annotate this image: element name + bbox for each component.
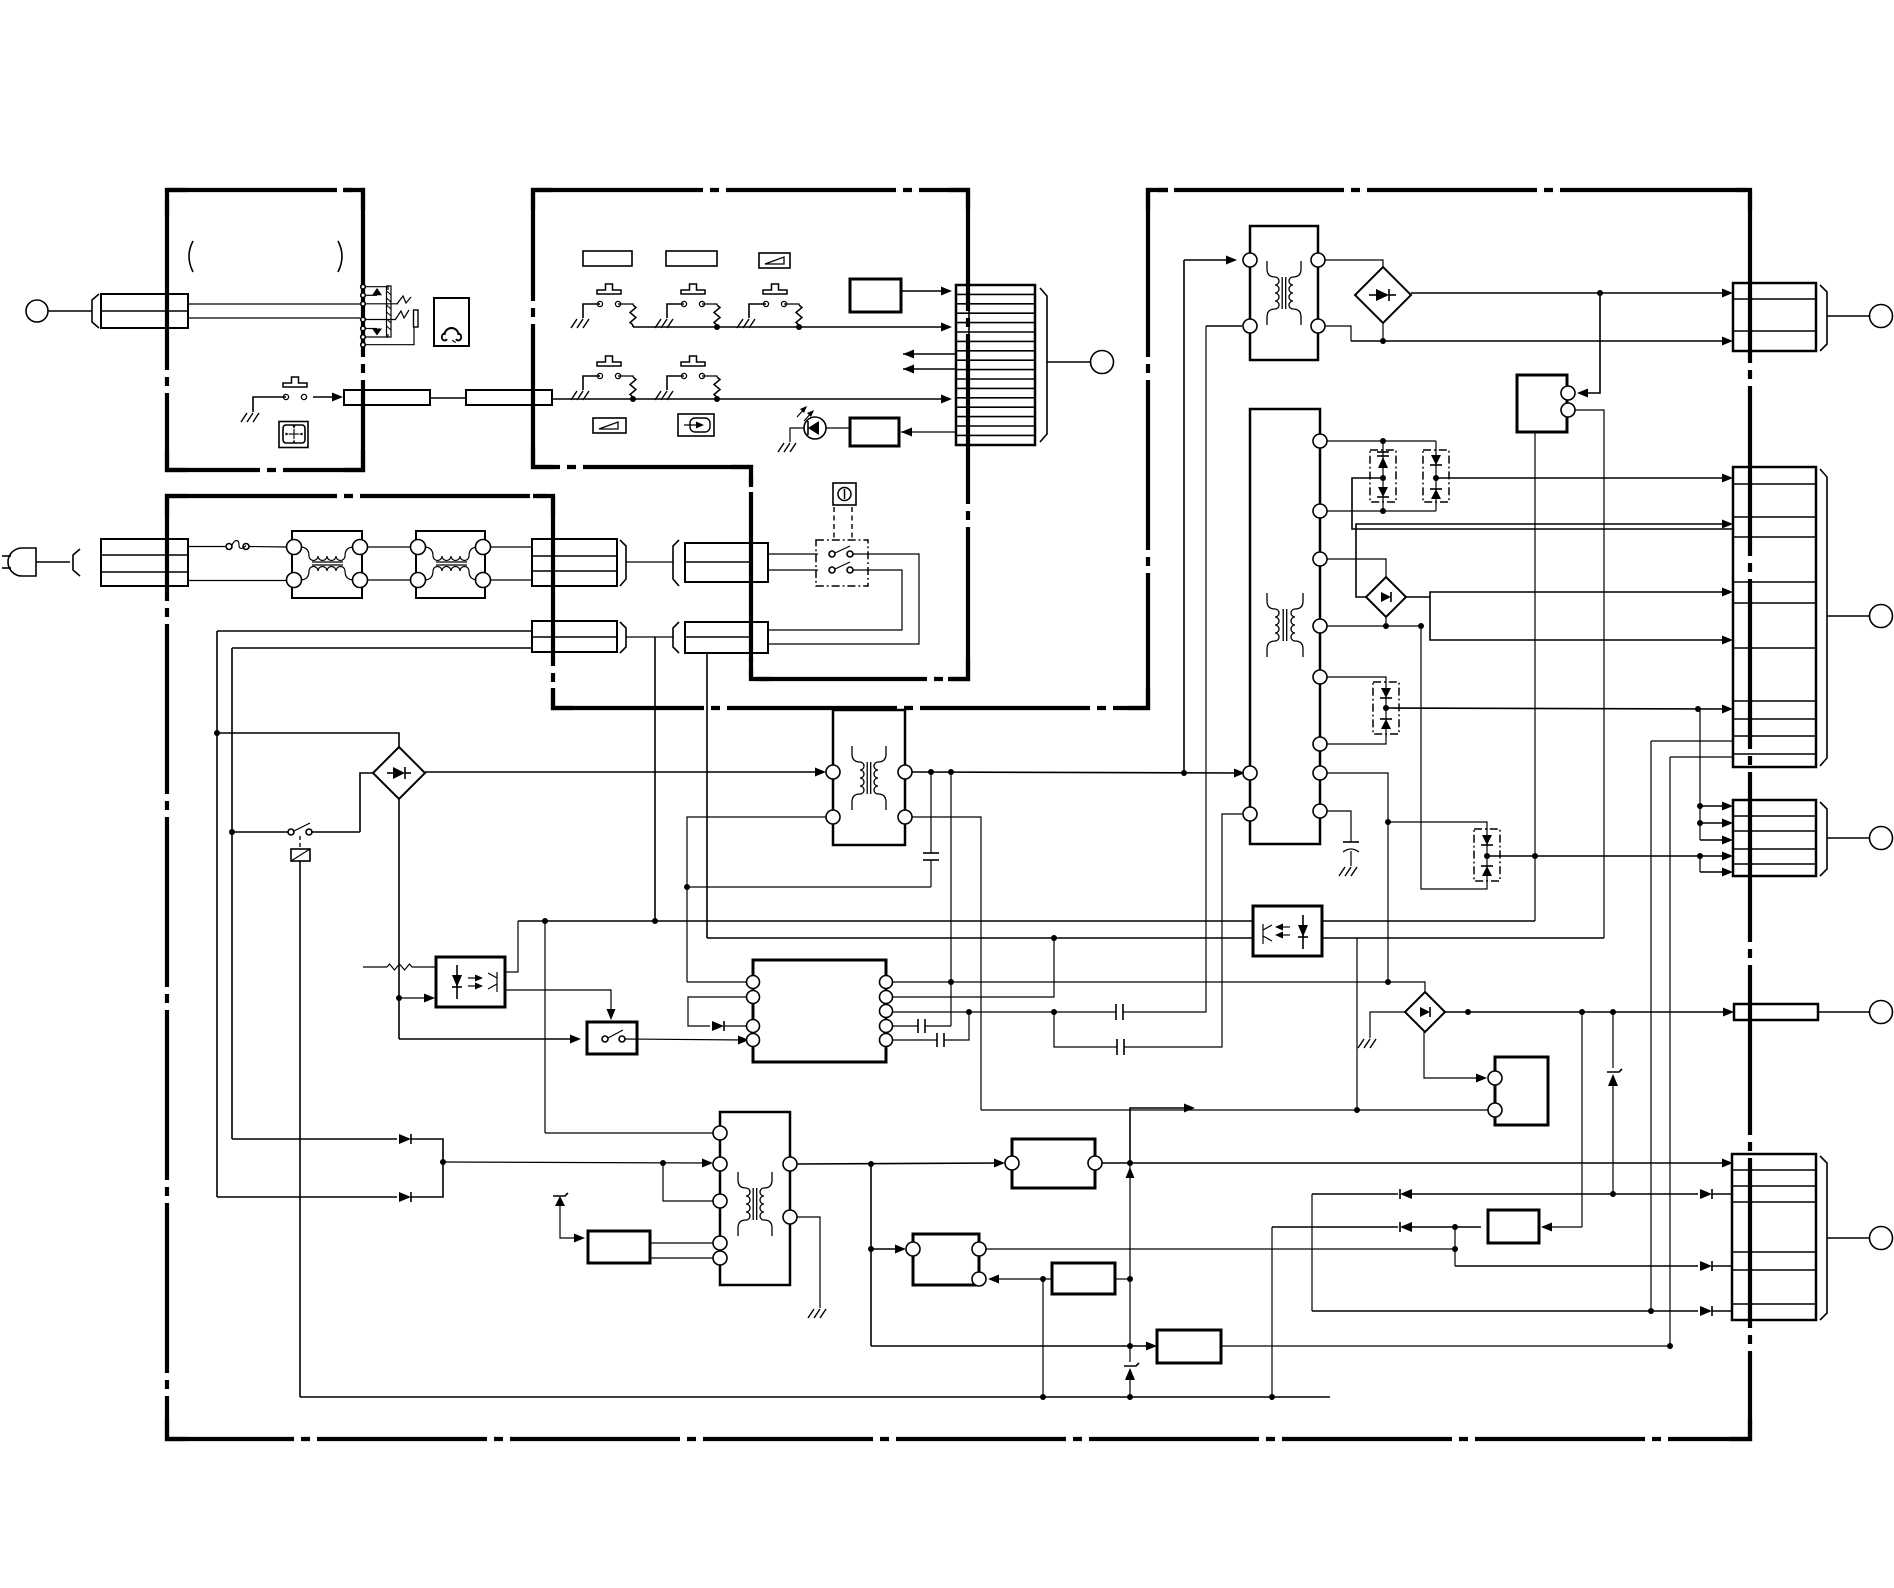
secondary wire 2 [1327,502,1436,514]
LED D01 [790,406,826,442]
bridge rectifier D41 [1355,267,1411,323]
AC connector CN23 [685,543,768,582]
capacitor C33 [893,1009,972,1047]
AC return connector CN25 [532,621,617,652]
terminal circle [1870,827,1893,850]
line filter LF2 [411,531,491,598]
wire to T4 pin2 [440,1159,713,1168]
secondary wire 3 [1327,559,1386,578]
wire [188,546,225,548]
resistor R14 [618,376,636,399]
DC output wire [1445,1008,1734,1017]
wire [1827,315,1869,317]
wire to T4 pin1 [545,1132,713,1134]
wire to dual diode D55 [1388,822,1487,829]
distribution vertical [1697,709,1703,840]
IC1 feedback line B [893,935,1057,997]
feedback wire into connector [1651,740,1733,742]
capacitor C32 [893,1019,951,1033]
plug bracket [73,549,80,576]
drive box Q61 [588,1231,650,1263]
wire [626,636,673,638]
wire to bridge top [217,733,399,747]
bridge rectifier D53 [1366,577,1406,617]
resistor R31 [363,964,436,970]
connector bracket [1820,285,1827,351]
distribution vertical 2 [1697,853,1703,872]
opto emitter wire [505,990,616,1020]
secondary wire 4 [1327,617,1424,629]
push switch S5 [667,356,705,390]
control line vertical A [1607,1012,1622,1194]
ground [1339,867,1357,876]
dual diode D55 [1474,829,1500,881]
connector bracket [620,622,626,653]
primary return wire [684,817,931,982]
IC1 sense line [893,1009,1057,1015]
OR diode D31 [232,1134,443,1162]
wire [826,427,850,429]
snubber capacitor C31 [923,772,939,887]
ground [778,443,796,452]
regulator output wire [1221,1343,1673,1349]
ground [655,391,673,400]
T1 return wire [1325,326,1351,341]
wire into connector [1351,337,1733,346]
standby transformer T1 [1243,226,1325,360]
parenthesis left [189,241,193,272]
regulator output wire [1575,410,1604,938]
control box [850,279,901,312]
wire into connector [1700,819,1733,828]
optocoupler PC2 [1253,906,1322,956]
secondary wire 7 [1327,773,1391,982]
error amp box R63 [1488,1210,1582,1243]
push switch S3 [749,284,787,318]
AC live vertical from CN [654,637,656,921]
ground [241,413,259,422]
control rail wire [707,937,1253,939]
main transformer T3 primary [826,710,912,845]
rectified output C [1386,705,1733,714]
volume icon box [759,253,790,268]
wire from rectifier to IC2 [1424,1032,1487,1083]
switch board block outline [533,190,968,679]
wire with arrow into IC3 [988,1275,1052,1284]
phones connector CN01 [101,294,188,328]
connector bracket [620,540,626,586]
fuse F1 [226,541,287,550]
terminal circle [1870,305,1893,328]
wire into connector [1700,868,1733,877]
output connector CN43 [1733,800,1816,876]
arrow out 1 [903,350,956,359]
control IC3 [906,1234,986,1286]
parenthesis right [338,241,342,272]
ground [737,319,755,328]
dual diode D52 [1423,450,1449,502]
arrow out 2 [903,365,956,374]
border corner reinforcements [167,190,1750,1439]
switch loop wire 2 [768,570,902,630]
tally icon [279,422,308,448]
dual diode D51 [1370,450,1396,502]
dual diode D54 [1373,682,1399,734]
wire to bridge D41 [1325,260,1383,268]
feedback line vertical D [1669,757,1671,1346]
connector bracket [673,622,679,653]
detector box Q62 [1052,1263,1115,1294]
wire [1115,1276,1133,1282]
label box [583,251,632,266]
AC plug [2,548,70,576]
terminal circle [1870,1001,1893,1024]
wire [1827,1237,1869,1239]
standby DC wire [1411,289,1733,298]
secondary wire 6 [1327,734,1386,744]
key bus 2 [551,395,952,404]
output connector CN42 [1733,467,1816,767]
rail branch arrow [1130,1104,1195,1164]
wire to T4 pin3 [663,1163,713,1201]
ground [571,319,589,328]
AC return connector CN24 [685,622,768,653]
secondary wire 5 [1327,677,1386,682]
feedback wire into connector [1670,756,1733,758]
wire [490,579,532,581]
connector bracket [1820,802,1827,876]
T4 ground wire [797,1217,820,1308]
label box [666,251,717,266]
opto output vertical [1356,938,1358,1110]
wire [1827,837,1869,839]
capacitor C35 [1054,814,1242,1055]
wire [1818,1011,1869,1013]
resistor R11 [618,304,636,327]
power supply board outline [167,190,1750,1439]
sense vertical B [1271,1227,1273,1397]
T4 output wire [797,1159,1005,1168]
wire [188,317,360,319]
standby rail branch vertical [544,921,546,1133]
regulator rail vertical [1322,432,1538,921]
terminal circle [1091,351,1114,374]
relay coil drive vertical [299,861,301,1397]
IC3 output wire [986,1246,1458,1252]
wire from feedback to bridge [1388,982,1425,992]
regulator box R62 [1157,1330,1221,1363]
output line into connector [1312,1306,1733,1316]
ground [1358,1039,1376,1048]
push switch S01 [253,377,307,412]
drive wire [912,817,981,1110]
connector CN02 [344,390,430,405]
bridge output wires [1356,520,1733,645]
secondary wire 1 [1327,438,1436,450]
main power switch S21 [816,507,868,586]
resistor R13 [784,304,802,327]
power icon [833,483,856,505]
AC neutral vertical from CN [706,653,708,938]
feedback line vertical [1311,1194,1313,1311]
bridge ground wire [1370,1012,1405,1038]
wire [1047,361,1091,363]
wire into T1 low pin [1206,325,1242,327]
connector bracket [1820,469,1827,766]
catch winding return [1421,626,1487,889]
up arrow on zener branch [1126,1167,1135,1178]
AC line vertical 2 [229,648,235,1139]
line filter LF1 [287,531,368,598]
sense vertical [1042,1279,1044,1397]
hybrid regulator box IC2 [1488,1057,1548,1125]
secondary wire 8 [1327,811,1351,842]
rectified output A [1436,474,1733,483]
connector bracket [1820,1156,1827,1320]
push switch S4 [583,356,621,390]
connector bracket [92,294,99,328]
connector bracket [673,540,679,586]
bottom rail wire [300,1394,1330,1400]
phones terminal circle [26,300,48,322]
connector bracket [1040,288,1047,442]
IC1 pin1 wire [687,981,746,983]
push switch S1 [583,284,621,318]
feedback diode line A [1312,1189,1733,1199]
connector drive line [1455,1227,1733,1271]
wire [768,553,818,555]
polarized capacitor C51 [1343,842,1359,866]
output connector CN44 [1734,1004,1818,1020]
terminal circle [1870,1227,1893,1250]
HV bus wire [425,768,826,777]
wire to bridge left [360,773,373,832]
headphones icon [434,298,469,346]
relay coil RY1 [291,836,310,861]
regulator box R61 [1005,1139,1102,1188]
IC1 pin2 loop with diode [688,997,746,1031]
volume icon box 2 [593,418,626,433]
connector CN03 [466,390,552,405]
push switch S2 [667,284,705,318]
rectified output D [1487,852,1733,861]
wire [650,1257,713,1259]
wire [367,546,411,548]
drive return wire [981,1107,1488,1113]
optocoupler PC1 [436,957,505,1007]
board connector CN11 [956,285,1035,445]
switch loop wire 1 [768,554,919,644]
control line vertical B [1581,1012,1583,1227]
main transformer T2 [1243,409,1327,844]
output connector CN45 [1732,1154,1816,1320]
relay contact RY1 [232,823,360,835]
sub feed vertical [868,1164,874,1346]
ground [808,1309,826,1318]
wire to rectifier line 2 [232,647,532,649]
terminal circle [1870,605,1893,628]
resistor R15 [702,376,720,399]
wire [626,561,673,563]
zener diode D33 [553,1193,585,1243]
standby transformer T4 [713,1112,797,1285]
standby feed vertical 1 [1184,256,1237,774]
wire [1827,615,1869,617]
wire into IC3 [871,1245,906,1254]
LED driver box [850,418,899,446]
wire with arrow [313,393,343,402]
wire [490,546,532,548]
input select icon box [678,414,714,436]
opto collector wire [505,921,518,972]
standby rail wire [518,918,1253,924]
wire into regulator R62 [871,1342,1157,1351]
wire into connector [1700,802,1733,811]
front panel block outline [167,190,363,470]
AC line vertical 1 [214,631,220,1197]
wire with arrow into optocoupler [399,994,435,1003]
wire [650,1242,713,1244]
wire with arrow [901,428,956,437]
capacitor C34 [1054,326,1206,1020]
switch SW31 [587,1022,749,1054]
wire into connector [1700,836,1733,845]
wire [188,303,360,305]
vcc vertical [950,772,952,1026]
wire with arrow [901,287,952,296]
switching regulator IC1 [747,960,893,1062]
feedback diode line B [1272,1222,1481,1232]
bridge output vertical [396,799,581,1044]
OR diode D32 [217,1162,443,1202]
headphone jack J01 [361,284,418,347]
output connector CN41 [1733,283,1816,351]
board edge connector CN22 [532,539,617,586]
bridge rectifier D56 [1405,992,1445,1032]
zener vertical with zener D62 [1124,1163,1139,1400]
key bus 1 [633,323,952,332]
ground [655,319,673,328]
wire to rectifier line 1 [217,630,532,632]
wire [768,569,818,571]
HV bus wire 2 [912,769,1245,778]
ground [571,391,589,400]
wire to regulator [1577,293,1600,398]
resistor R12 [702,304,720,327]
5V rail wire [1102,1159,1733,1168]
standby regulator Q41 [1517,375,1575,432]
bridge D41 return [1382,323,1384,341]
wire [430,397,466,399]
AC inlet connector CN21 [101,539,294,586]
wire [367,579,411,581]
wire [48,310,92,312]
IC1 feedback line A [893,979,1391,985]
feedback line vertical C [1650,741,1652,1311]
bridge rectifier D21 [373,747,425,799]
rectified output B [1352,478,1733,529]
